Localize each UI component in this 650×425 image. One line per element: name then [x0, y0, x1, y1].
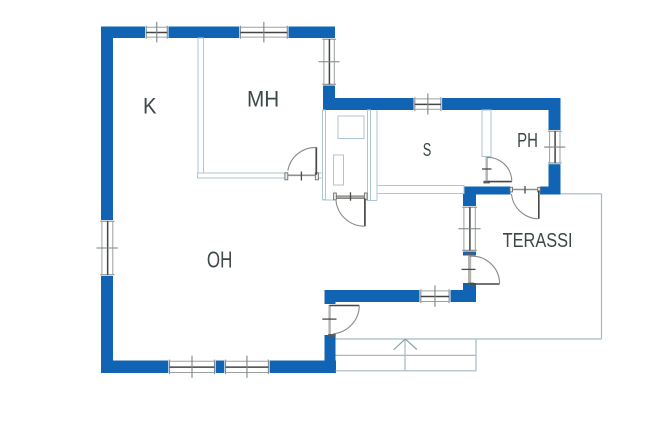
window left wall: [96, 220, 118, 276]
wall PH south exterior west segment: [463, 187, 510, 195]
window PH east wall: [544, 130, 565, 164]
svg-text:K: K: [143, 94, 157, 119]
door PH to terassi (opening in PH south wall): [510, 186, 540, 219]
svg-text:OH: OH: [207, 246, 232, 272]
door hallway south (sill + arc into OH): [334, 192, 368, 226]
window OH south wall east: [224, 356, 269, 378]
door hall to terassi (opening in terassi west wall): [462, 253, 500, 286]
wall terassi west exterior upper segment: [463, 187, 476, 207]
wall OH south exterior segment b: [216, 361, 225, 374]
wall left exterior: [101, 27, 113, 374]
wall entrance east lower segment: [325, 335, 336, 361]
stairs entrance steps: [336, 339, 477, 371]
fixture hallway cabinet: [334, 155, 344, 185]
window K top wall: [145, 22, 169, 43]
wall terassi west exterior mid segment: [463, 252, 476, 256]
wall MH east exterior: [323, 27, 335, 111]
window MH top wall: [239, 22, 288, 43]
wall dining south exterior west segment: [325, 290, 420, 302]
sauna south interior wall: [377, 185, 464, 193]
stairs direction arrow: [394, 339, 417, 350]
wall PH south exterior east segment: [540, 187, 561, 195]
fixture hallway closet: [338, 116, 364, 139]
window MH east wall: [318, 38, 339, 86]
wall OH south exterior segment c: [270, 361, 336, 374]
door MH (opening in MH south wall): [285, 147, 319, 180]
door S to PH (opening below S/PH wall): [482, 157, 512, 183]
window terassi west wall: [458, 206, 480, 252]
wall entrance east upper stub: [325, 302, 336, 304]
partition hallway west interior wall: [323, 110, 326, 200]
wall terassi west exterior lower segment: [463, 283, 476, 302]
partition hallway east interior wall: [367, 110, 370, 200]
partition MH south interior wall west segment: [198, 173, 287, 178]
window dining south wall: [420, 285, 451, 306]
hallway west wall bottom closure line: [323, 199, 335, 201]
terassi outline: [476, 194, 602, 339]
partition K/MH interior wall: [198, 38, 203, 176]
wall OH south exterior segment a: [101, 361, 168, 374]
svg-text:S: S: [423, 139, 432, 160]
wall dining south exterior east segment: [450, 290, 476, 302]
svg-text:TERASSI: TERASSI: [503, 230, 573, 252]
svg-text:MH: MH: [247, 86, 279, 111]
partition S/PH interior wall: [482, 110, 491, 157]
door main entrance (opening in entrance east wall): [322, 305, 359, 337]
partition MH south interior wall east segment: [316, 173, 324, 178]
svg-text:PH: PH: [517, 130, 538, 152]
window sauna-block top wall: [414, 93, 443, 114]
sauna west liner line: [376, 110, 378, 200]
wall sauna-block top exterior: [323, 98, 561, 110]
window OH south wall west: [168, 356, 215, 378]
wall top exterior (K/MH): [101, 27, 335, 39]
wall PH east exterior: [549, 98, 561, 195]
hallway east shaft bottom closure line: [370, 199, 377, 201]
